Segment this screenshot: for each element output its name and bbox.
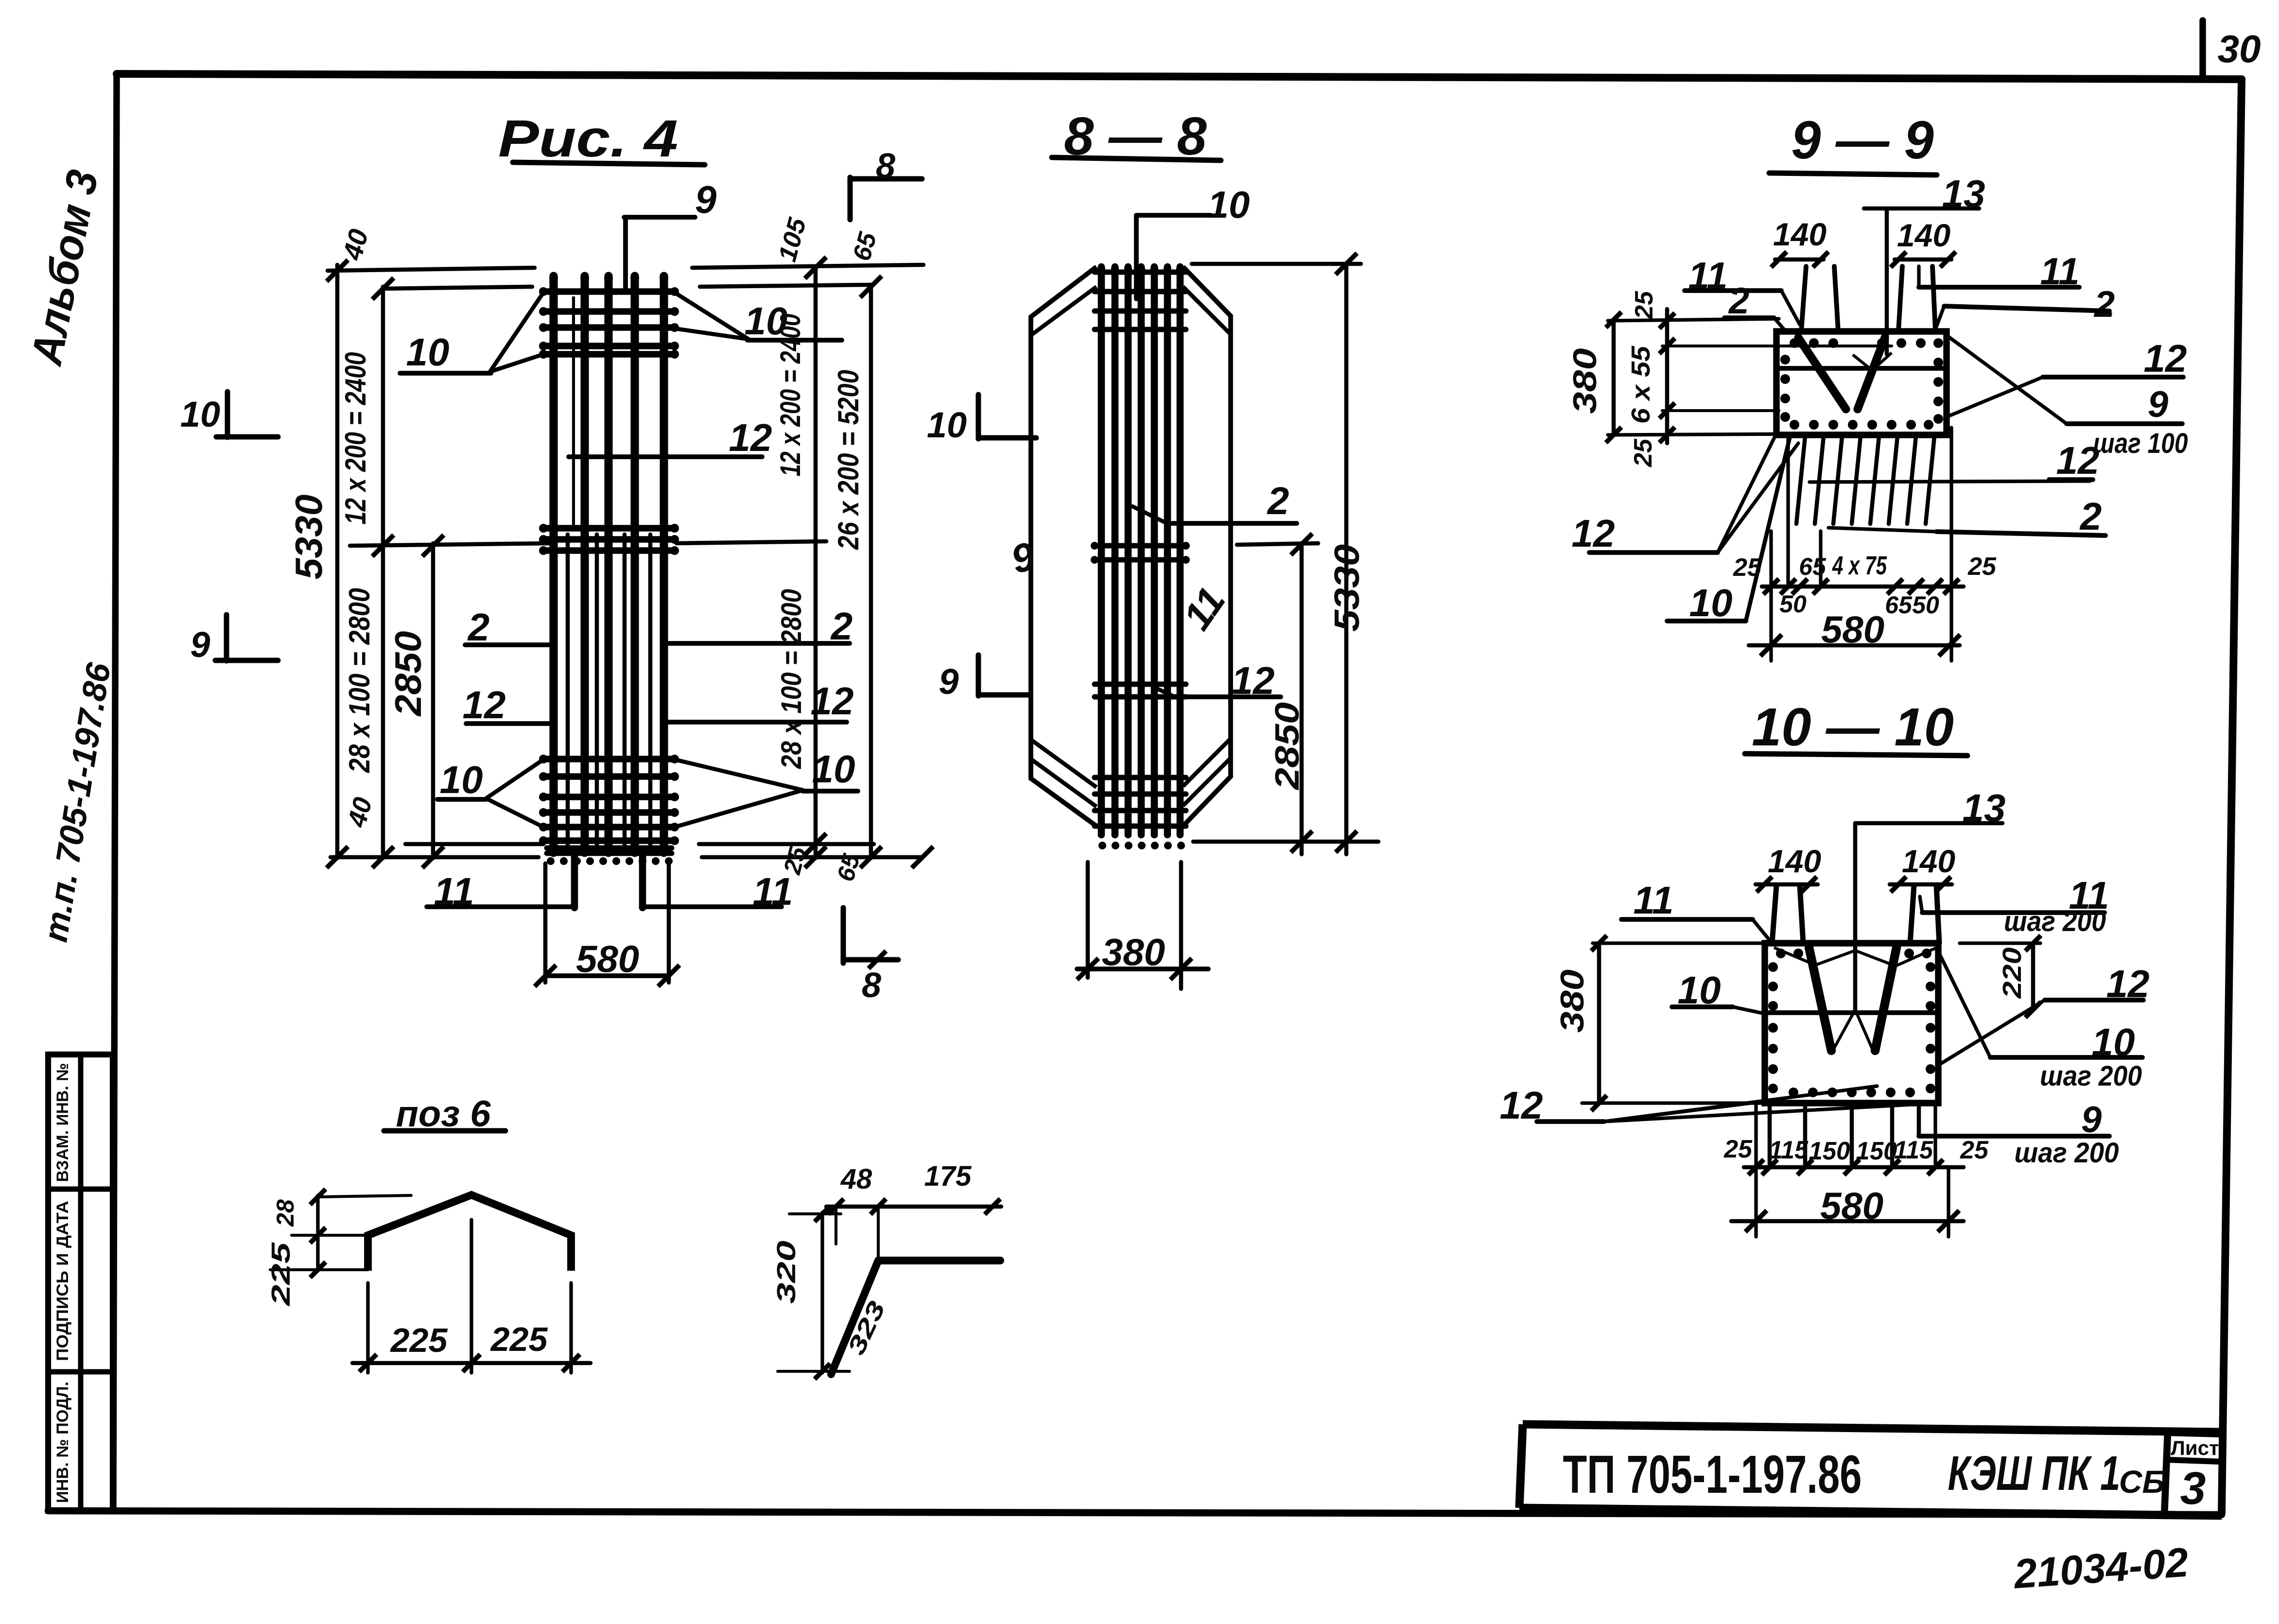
thin center zigzag 9-9 xyxy=(1853,353,1892,370)
extension mid 8-8 xyxy=(1237,543,1318,545)
protruding bars fan 9-9 xyxy=(1796,436,1805,524)
cage ties top band xyxy=(543,288,675,294)
top hook bars right 9-9 xyxy=(1898,266,1902,331)
thin top zigzag 10-10 xyxy=(1774,948,1937,966)
svg-text:380: 380 xyxy=(1566,348,1603,414)
extension bottom 8-8 xyxy=(1193,840,1378,844)
svg-text:25: 25 xyxy=(1630,291,1658,320)
rebar dots left 9-9 xyxy=(1780,355,1790,364)
svg-text:ИНВ. № ПОДЛ.: ИНВ. № ПОДЛ. xyxy=(53,1382,72,1503)
leader 13 9-9 xyxy=(1885,210,1889,354)
svg-text:8: 8 xyxy=(862,966,881,1005)
svg-text:13: 13 xyxy=(1963,786,2006,829)
svg-text:140: 140 xyxy=(1768,843,1821,879)
svg-text:шаг 200: шаг 200 xyxy=(2015,1137,2119,1169)
dim 580 9-9 xyxy=(1749,643,1960,648)
svg-text:25: 25 xyxy=(1960,1136,1989,1164)
svg-text:140: 140 xyxy=(1902,843,1955,879)
svg-text:12: 12 xyxy=(2056,439,2100,482)
stirrup legs bottom 10-10 xyxy=(1768,1104,1772,1164)
sheet border frame bottom xyxy=(48,1511,2222,1515)
dowel bar bottom left xyxy=(571,854,578,908)
svg-text:10: 10 xyxy=(927,405,967,445)
svg-text:10: 10 xyxy=(1208,183,1250,226)
sheet border frame left xyxy=(113,74,117,1509)
extension line mid right xyxy=(677,541,826,543)
svg-text:580: 580 xyxy=(576,937,639,980)
bent bar V right 10-10 xyxy=(1875,948,1896,1051)
svg-text:12 х 200 = 2400: 12 х 200 = 2400 xyxy=(339,352,372,525)
section marker 8 bottom xyxy=(841,908,846,963)
cross leaders right 9-9 xyxy=(1947,335,2067,424)
stamp column inner vertical xyxy=(78,1054,84,1511)
z-bar top dim line xyxy=(826,1205,1001,1209)
svg-text:25: 25 xyxy=(1629,438,1657,467)
svg-text:175: 175 xyxy=(924,1160,972,1192)
z-bar extension verticals xyxy=(835,1207,837,1244)
extension top 8-8 xyxy=(1192,262,1361,266)
cage ties bottom band xyxy=(543,756,675,762)
leader bar 9 vertical xyxy=(623,217,628,292)
sheet border frame top xyxy=(117,74,2242,79)
pile outline left 8-8 xyxy=(1031,267,1096,826)
svg-text:9: 9 xyxy=(939,661,958,702)
svg-text:225: 225 xyxy=(490,1320,548,1358)
protruding bar pair right 10-10 xyxy=(1910,885,1914,943)
svg-text:2: 2 xyxy=(2093,284,2115,325)
svg-text:12: 12 xyxy=(463,683,506,726)
bottom dim extensions 9-9 xyxy=(1769,531,1773,661)
rebar dots right 9-9 xyxy=(1933,338,1943,348)
dim line 2850 vertical xyxy=(431,543,435,858)
svg-text:10: 10 xyxy=(406,330,450,374)
svg-text:Рис. 4: Рис. 4 xyxy=(498,109,678,168)
rebar dots top 10-10 xyxy=(1776,949,1786,958)
svg-text:ВЗАМ. ИНВ. №: ВЗАМ. ИНВ. № xyxy=(53,1063,72,1182)
svg-text:320: 320 xyxy=(772,1241,801,1304)
stamp column outer box xyxy=(48,1054,113,1511)
svg-text:380: 380 xyxy=(1554,969,1591,1033)
top hook bars left 9-9 xyxy=(1801,266,1806,331)
bottom dim line 9-9 xyxy=(1762,585,1964,589)
ties bottom band 8-8 xyxy=(1095,775,1186,780)
svg-text:25: 25 xyxy=(1723,1135,1753,1163)
bottom dim line 10-10 xyxy=(1744,1165,1964,1170)
svg-text:2850: 2850 xyxy=(1268,702,1306,791)
inner tie line 9-9 xyxy=(1776,366,1947,371)
rebar dots bottom 9-9 xyxy=(1790,420,1799,430)
ties top band 8-8 xyxy=(1095,270,1186,275)
sheet border frame right xyxy=(2222,79,2242,1513)
z-bar diagonal segment xyxy=(831,1261,878,1374)
dim ticks left chain xyxy=(327,260,348,281)
svg-text:150: 150 xyxy=(1856,1137,1897,1165)
fan bar line 2 bottom 9-9 xyxy=(1828,528,1936,532)
svg-text:12: 12 xyxy=(729,416,772,459)
svg-text:2: 2 xyxy=(467,605,490,649)
z-bar horizontal segment xyxy=(878,1257,1000,1264)
section 8-8 title underline xyxy=(1052,157,1221,160)
bent bar V right 9-9 xyxy=(1858,338,1885,409)
dim line 5330 vertical xyxy=(335,265,340,858)
svg-text:3: 3 xyxy=(2180,1463,2206,1514)
svg-text:580: 580 xyxy=(1820,1184,1883,1227)
svg-text:10: 10 xyxy=(812,747,855,791)
svg-text:225: 225 xyxy=(390,1321,448,1359)
section 10-10 title underline xyxy=(1745,754,1967,756)
protruding bar pair left 10-10 xyxy=(1772,885,1776,943)
cage bottom dense mesh xyxy=(547,846,672,851)
extension line mid left xyxy=(350,543,552,546)
rebar dots right 10-10 xyxy=(1926,962,1935,972)
svg-text:10 — 10: 10 — 10 xyxy=(1752,697,1954,757)
pos 6 title underline xyxy=(384,1128,505,1134)
svg-text:28 х 100 = 2800: 28 х 100 = 2800 xyxy=(343,588,376,773)
cage splice bars lower half xyxy=(566,535,570,850)
leader 13 10-10 xyxy=(1853,823,1858,1010)
dim 380 8-8 xyxy=(1077,967,1208,971)
page fold tick top right xyxy=(2199,20,2206,78)
dim ticks right chain xyxy=(805,257,826,278)
svg-text:140: 140 xyxy=(1773,216,1827,252)
pile outline right 8-8 xyxy=(1183,267,1231,826)
z-bar left extensions xyxy=(789,1212,841,1215)
cage thin bar dashed xyxy=(572,296,575,530)
svg-text:Лист: Лист xyxy=(2171,1436,2219,1459)
svg-text:12: 12 xyxy=(1572,512,1615,555)
svg-text:580: 580 xyxy=(1821,608,1884,651)
svg-text:150: 150 xyxy=(1809,1137,1850,1165)
cage bars 8-8 xyxy=(1098,267,1105,835)
dim line right inner 12x200 xyxy=(814,268,818,858)
pos 6 left dim line xyxy=(316,1195,319,1271)
pos 6 left extensions xyxy=(320,1195,411,1197)
svg-text:13: 13 xyxy=(1942,172,1985,215)
extension line top inner xyxy=(383,287,532,289)
dim 220 right 10-10 xyxy=(2031,943,2035,1010)
stamp column divider 1 xyxy=(48,1187,113,1192)
left dim 380 9-9 xyxy=(1612,320,1616,435)
dim line 12x200 28x100 vertical left xyxy=(381,287,385,858)
svg-text:65: 65 xyxy=(1885,591,1913,619)
svg-text:25: 25 xyxy=(1733,553,1762,582)
svg-text:11: 11 xyxy=(1633,879,1673,922)
bottom dim extensions 10-10 xyxy=(1754,1104,1757,1237)
pile outline right chamfer lines xyxy=(1183,287,1231,334)
left extension lines 9-9 xyxy=(1608,319,1779,321)
dim 380 extension verticals 8-8 xyxy=(1086,862,1090,978)
inner tie line 10-10 xyxy=(1765,1010,1938,1015)
cage longitudinal bars xyxy=(549,276,557,853)
left dim 25 6x55 25 9-9 xyxy=(1665,309,1670,443)
section 9-9 title underline xyxy=(1769,173,1937,175)
pile outline left chamfer lines xyxy=(1031,287,1096,335)
ties lower mid band 8-8 xyxy=(1095,682,1186,687)
svg-text:2850: 2850 xyxy=(388,631,429,717)
leg right 9 10-10 xyxy=(1917,1104,1921,1136)
dim 580 10-10 xyxy=(1731,1219,1964,1224)
list header box xyxy=(2168,1433,2222,1462)
dim line right outer 26x200 xyxy=(869,285,873,858)
svg-text:ПОДПИСЬ И ДАТА: ПОДПИСЬ И ДАТА xyxy=(53,1201,72,1361)
dim 580 fig4 xyxy=(545,973,669,978)
extension line bottom band xyxy=(405,842,543,847)
svg-text:140: 140 xyxy=(1897,217,1950,253)
svg-text:5330: 5330 xyxy=(1328,544,1367,632)
svg-text:12 х 200 = 2400: 12 х 200 = 2400 xyxy=(775,314,806,477)
section 9-9 rectangle xyxy=(1776,331,1947,435)
bent bar V left 9-9 xyxy=(1798,338,1846,409)
svg-text:КЭШ ПК 1: КЭШ ПК 1 xyxy=(1948,1446,2121,1501)
svg-text:30: 30 xyxy=(2218,27,2261,70)
svg-text:шаг 100: шаг 100 xyxy=(2093,428,2188,459)
svg-text:шаг 200: шаг 200 xyxy=(2040,1060,2142,1092)
extension line top outer xyxy=(328,268,535,271)
pos 6 bent bar xyxy=(368,1195,571,1271)
svg-text:48: 48 xyxy=(840,1163,872,1195)
svg-text:26 х 200 = 5200: 26 х 200 = 5200 xyxy=(832,370,865,550)
svg-text:6 х 55: 6 х 55 xyxy=(1626,346,1655,424)
title block outer xyxy=(1519,1424,2222,1516)
rebar dots left 10-10 xyxy=(1768,962,1778,972)
z-bar left dim line xyxy=(820,1212,824,1373)
dowel bar bottom right xyxy=(639,854,646,908)
bent bar V left 10-10 xyxy=(1809,948,1831,1051)
rebar dots bottom 10-10 xyxy=(1789,1088,1798,1097)
svg-text:380: 380 xyxy=(1102,931,1165,973)
svg-text:220: 220 xyxy=(1998,948,2027,999)
section marker 8 top xyxy=(848,177,853,220)
svg-text:2: 2 xyxy=(2079,495,2102,538)
cage bottom dot row xyxy=(547,857,555,865)
svg-text:9: 9 xyxy=(2148,384,2168,425)
thin v legs 10-10 xyxy=(1833,1010,1855,1050)
rebar dots top 9-9 xyxy=(1790,338,1799,348)
svg-text:50: 50 xyxy=(1912,591,1939,619)
svg-text:25: 25 xyxy=(1967,553,1997,581)
stamp column divider 2 xyxy=(48,1369,113,1375)
svg-text:9 — 9: 9 — 9 xyxy=(1791,110,1933,170)
fan bar line 12 bottom 9-9 xyxy=(1809,481,2090,482)
ties mid band 8-8 xyxy=(1095,543,1186,549)
svg-text:4 х 75: 4 х 75 xyxy=(1832,551,1887,580)
svg-text:9: 9 xyxy=(190,624,210,665)
svg-text:115: 115 xyxy=(1769,1136,1809,1164)
svg-text:10: 10 xyxy=(440,758,483,801)
svg-text:9: 9 xyxy=(695,178,717,221)
svg-text:8: 8 xyxy=(876,147,895,186)
dim extension lines 580 xyxy=(543,864,548,983)
svg-text:225: 225 xyxy=(266,1242,296,1307)
svg-text:ТП 705-1-197.86: ТП 705-1-197.86 xyxy=(1563,1445,1862,1504)
Fig.4 title underline xyxy=(513,162,705,165)
svg-text:115: 115 xyxy=(1894,1136,1933,1164)
svg-text:10: 10 xyxy=(1689,581,1733,624)
cage ties middle band xyxy=(543,525,675,531)
svg-text:5330: 5330 xyxy=(287,495,330,580)
dim 380 left 10-10 xyxy=(1597,943,1601,1103)
svg-text:28 х 100 = 2800: 28 х 100 = 2800 xyxy=(776,589,807,769)
pos 6 bottom dim line xyxy=(352,1361,591,1365)
dim line 5330 8-8 xyxy=(1344,264,1349,854)
svg-text:50: 50 xyxy=(1779,590,1807,618)
title block list divider xyxy=(2164,1432,2168,1516)
dim line 2850 8-8 xyxy=(1300,543,1304,854)
cross leaders right 10-10 xyxy=(1938,1000,2045,1065)
svg-text:10: 10 xyxy=(180,394,220,434)
svg-text:СБ: СБ xyxy=(2119,1464,2165,1500)
bottom dot row 8-8 xyxy=(1098,842,1106,849)
svg-text:12: 12 xyxy=(2144,337,2187,380)
svg-text:2: 2 xyxy=(1267,479,1289,522)
svg-text:28: 28 xyxy=(272,1199,299,1227)
svg-text:шаг 200: шаг 200 xyxy=(2004,906,2106,937)
section 10-10 rectangle xyxy=(1765,943,1938,1103)
svg-text:65: 65 xyxy=(1799,553,1827,580)
pos 6 bottom extensions xyxy=(366,1283,369,1373)
